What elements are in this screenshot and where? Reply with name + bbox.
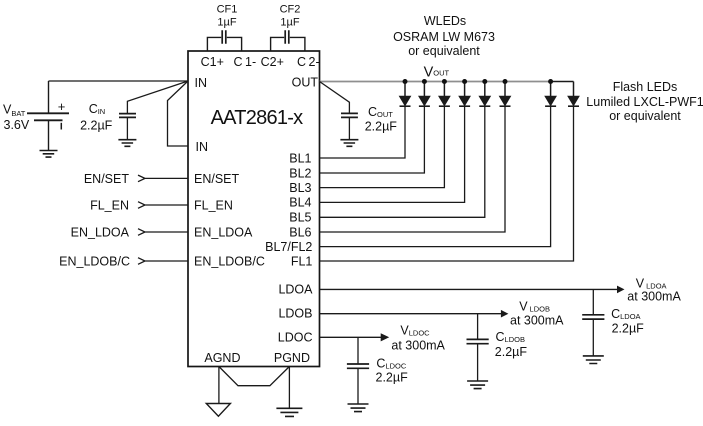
wire IN pin to C_IN (diagonal) xyxy=(127,81,188,114)
wire BL3 xyxy=(320,106,445,187)
svg-text:or equivalent: or equivalent xyxy=(408,44,480,58)
svg-text:OSRAM LW M673: OSRAM LW M673 xyxy=(393,30,495,44)
svg-text:2.2µF: 2.2µF xyxy=(376,370,409,384)
wire battery to IN pin xyxy=(49,80,189,82)
wire BL1 xyxy=(320,106,406,158)
svg-text:BL4: BL4 xyxy=(289,196,311,210)
ground (PGND) xyxy=(276,408,302,416)
LED D2 (BL2) xyxy=(419,82,430,107)
svg-text:BL2: BL2 xyxy=(289,166,311,180)
V_OUT rail wire xyxy=(320,81,551,83)
input arrow EN_LDOB/C xyxy=(138,258,188,265)
svg-text:C 2-: C 2- xyxy=(297,55,320,69)
arrowhead LDOC xyxy=(381,333,390,341)
svg-text:EN/SET: EN/SET xyxy=(84,172,130,186)
LED D8 (FL1 flash) xyxy=(568,82,579,107)
LED D3 (BL3) xyxy=(439,82,450,107)
LED D6 (BL6) xyxy=(500,82,511,107)
wire BL5 xyxy=(320,106,485,217)
capacitor CF2 xyxy=(271,30,305,51)
wire LDOA output xyxy=(320,288,619,290)
ground (C_IN) xyxy=(118,140,136,147)
svg-text:Lumiled LXCL-PWF1: Lumiled LXCL-PWF1 xyxy=(586,95,703,109)
svg-text:FL_EN: FL_EN xyxy=(194,198,233,212)
svg-text:FL_EN: FL_EN xyxy=(90,198,129,212)
svg-text:1µF: 1µF xyxy=(217,16,236,28)
wire AGND-PGND link (trapezoid) xyxy=(219,367,290,386)
svg-text:1µF: 1µF xyxy=(280,16,299,28)
svg-text:C 1-: C 1- xyxy=(233,55,256,69)
svg-text:PGND: PGND xyxy=(274,351,310,365)
LED D5 (BL5) xyxy=(479,82,490,107)
ground (C_OUT) xyxy=(340,140,358,147)
svg-text:WLEDs: WLEDs xyxy=(424,14,466,28)
wire BL7/FL2 xyxy=(320,106,551,246)
battery minus tick xyxy=(60,123,62,130)
analog ground triangle (AGND) xyxy=(206,404,230,417)
wire FL1 xyxy=(320,106,574,261)
svg-text:BL1: BL1 xyxy=(289,151,311,165)
svg-text:2.2µF: 2.2µF xyxy=(612,322,645,336)
ground (battery) xyxy=(40,151,58,158)
svg-text:LDOB: LDOB xyxy=(278,307,312,321)
input arrow EN_LDOA xyxy=(138,229,188,236)
svg-text:AAT2861-x: AAT2861-x xyxy=(211,107,304,129)
svg-text:BL7/FL2: BL7/FL2 xyxy=(265,240,312,254)
wire IN pin to second IN pin xyxy=(168,81,189,146)
svg-text:C2+: C2+ xyxy=(261,55,284,69)
svg-text:at 300mA: at 300mA xyxy=(510,314,564,328)
svg-text:BL6: BL6 xyxy=(289,225,311,239)
svg-text:EN_LDOB/C: EN_LDOB/C xyxy=(194,254,265,268)
svg-text:2.2µF: 2.2µF xyxy=(495,345,528,359)
wire AGND to ground xyxy=(218,367,220,404)
capacitor CF1 xyxy=(207,30,241,51)
capacitor C_LDOB xyxy=(477,314,479,340)
ground (C_LDOB) xyxy=(467,381,488,389)
capacitor C_LDOC xyxy=(357,337,359,364)
svg-text:CF2: CF2 xyxy=(280,4,301,16)
svg-text:Flash LEDs: Flash LEDs xyxy=(613,80,678,94)
svg-text:+: + xyxy=(58,99,66,114)
input arrow FL_EN xyxy=(138,202,188,209)
svg-text:at 300mA: at 300mA xyxy=(391,338,445,352)
svg-text:AGND: AGND xyxy=(204,351,240,365)
wire BL4 xyxy=(320,106,465,202)
svg-text:EN/SET: EN/SET xyxy=(194,172,240,186)
svg-text:BL3: BL3 xyxy=(289,181,311,195)
arrowhead LDOA xyxy=(617,286,625,294)
capacitor C_OUT xyxy=(341,113,358,117)
LED D1 (BL1) xyxy=(400,82,411,107)
capacitor C_LDOA xyxy=(592,289,594,314)
svg-text:EN_LDOA: EN_LDOA xyxy=(194,225,253,239)
svg-text:2.2µF: 2.2µF xyxy=(80,119,113,133)
wire BL2 xyxy=(320,106,425,173)
wire LDOC output xyxy=(320,336,382,338)
svg-text:at 300mA: at 300mA xyxy=(627,289,681,303)
wire BL6 xyxy=(320,106,506,232)
wire OUT to C_OUT (diagonal) xyxy=(320,82,350,114)
ground (C_LDOC) xyxy=(348,404,369,412)
LED D7 (BL7/FL2 flash) xyxy=(545,82,556,107)
battery V_BAT symbol xyxy=(27,81,69,151)
junction dots on V_OUT rail xyxy=(403,79,554,84)
svg-text:OUT: OUT xyxy=(292,76,319,90)
svg-text:EN_LDOA: EN_LDOA xyxy=(71,225,130,239)
svg-text:LDOA: LDOA xyxy=(278,283,313,297)
IC U1 AAT2861-x body xyxy=(188,51,320,367)
svg-text:EN_LDOB/C: EN_LDOB/C xyxy=(59,254,130,268)
svg-text:BL5: BL5 xyxy=(289,211,311,225)
input arrow EN/SET xyxy=(138,175,188,182)
svg-text:C1+: C1+ xyxy=(201,55,224,69)
wire PGND to ground xyxy=(288,367,290,409)
svg-text:3.6V: 3.6V xyxy=(4,118,30,132)
svg-text:LDOC: LDOC xyxy=(278,331,313,345)
svg-text:FL1: FL1 xyxy=(291,254,313,268)
svg-text:IN: IN xyxy=(195,76,208,90)
arrowhead LDOB xyxy=(501,310,509,318)
svg-text:or equivalent: or equivalent xyxy=(609,109,681,123)
svg-text:2.2µF: 2.2µF xyxy=(365,120,398,134)
svg-text:CF1: CF1 xyxy=(217,4,238,16)
LED D4 (BL4) xyxy=(459,82,470,107)
wire LDOB output xyxy=(320,313,503,315)
ground (C_LDOA) xyxy=(583,356,604,364)
capacitor C_IN xyxy=(119,114,136,118)
svg-text:IN: IN xyxy=(196,140,209,154)
